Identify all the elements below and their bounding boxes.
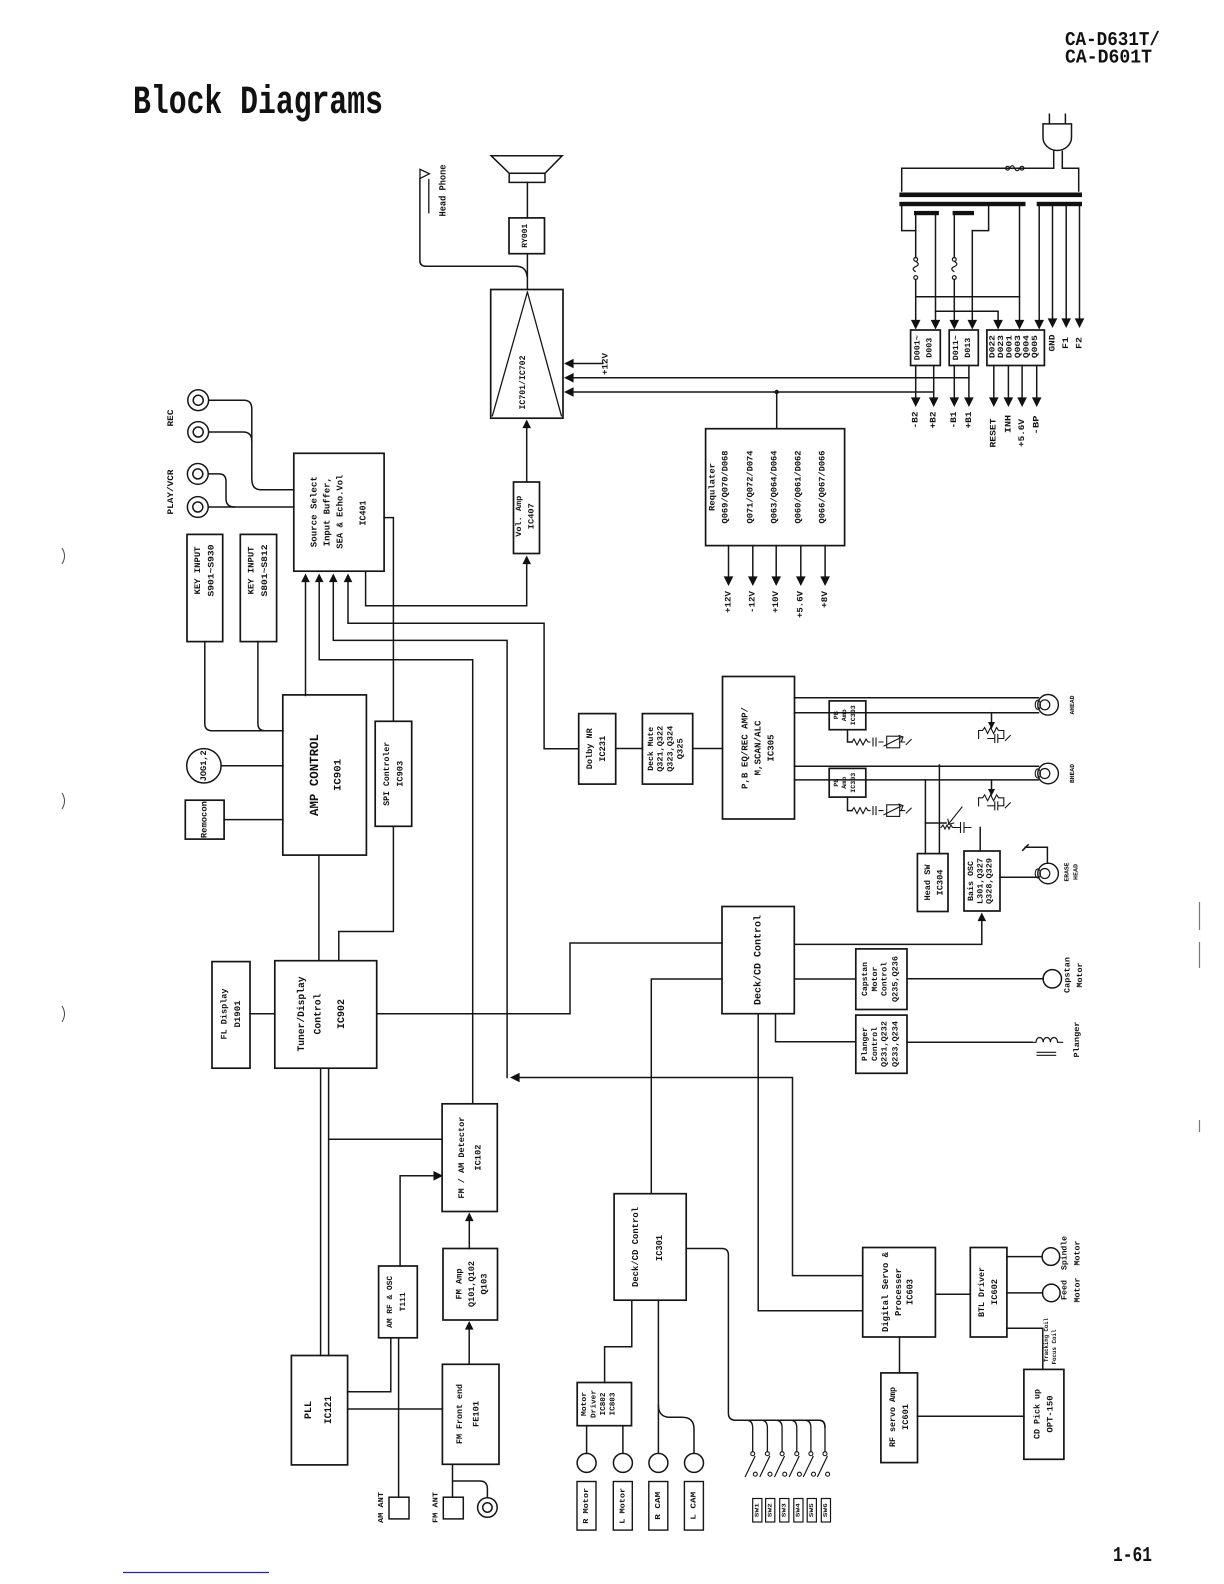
- wire planger control to coil: [907, 1041, 1032, 1043]
- wire link crossbar lower with corner: [936, 311, 999, 326]
- svg-text:Motor: Motor: [1073, 1277, 1082, 1302]
- speaker LS: [491, 156, 562, 183]
- wire audio line deck to IC401 junction: [514, 1078, 863, 1276]
- head A symbol: [1038, 695, 1059, 716]
- svg-text:Deck/CD Control: Deck/CD Control: [752, 915, 764, 1005]
- dolby NR box IC231: [579, 714, 616, 785]
- wire -B1 feed with fuse: [953, 215, 955, 326]
- svg-text:Block Diagrams: Block Diagrams: [133, 81, 383, 126]
- load network B: [991, 780, 993, 790]
- svg-text:RESET: RESET: [989, 419, 999, 448]
- svg-text:Deck Mute: Deck Mute: [647, 727, 656, 771]
- svg-text:IC602: IC602: [990, 1279, 1000, 1305]
- wire motor driver to R motor: [586, 1426, 588, 1454]
- svg-text:Tuner/Display: Tuner/Display: [296, 977, 308, 1052]
- svg-text:Motor: Motor: [1076, 962, 1085, 987]
- bias trimmer chain: [925, 822, 946, 824]
- svg-text:PLAY/VCR: PLAY/VCR: [166, 469, 176, 515]
- wire RESET out: [993, 366, 995, 400]
- svg-text:+5.6V: +5.6V: [796, 590, 806, 618]
- arrow into FM amp bottom: [465, 1321, 474, 1330]
- svg-text:M,SCAN/ALC: M,SCAN/ALC: [754, 720, 764, 776]
- wire key2 to amp control: [258, 642, 265, 731]
- label box SW3: [780, 1499, 789, 1523]
- wire BTL to pickup coils: [1007, 1328, 1043, 1369]
- wire FM amp to detector: [468, 1219, 470, 1249]
- svg-text:-BP: -BP: [1032, 416, 1042, 435]
- svg-text:AMP CONTROL: AMP CONTROL: [308, 734, 322, 816]
- wire A head line 1: [795, 697, 1039, 699]
- svg-text:Q233,Q234: Q233,Q234: [891, 1021, 900, 1067]
- svg-text:Head Phone: Head Phone: [438, 164, 449, 216]
- wire IC301 to motor driver: [605, 1300, 632, 1382]
- vol amp box IC407: [514, 482, 540, 554]
- svg-text:SEA & Echo.Vol: SEA & Echo.Vol: [336, 474, 346, 549]
- arrow regulator -12V: [748, 576, 758, 586]
- motor driver box: [577, 1383, 631, 1426]
- svg-text:IC803: IC803: [608, 1392, 617, 1415]
- svg-text:SW5: SW5: [808, 1502, 815, 1517]
- FM ANT square: [443, 1497, 463, 1519]
- svg-text:AHEAD: AHEAD: [1069, 695, 1076, 714]
- arrow into D011 box right: [968, 320, 978, 330]
- svg-text:CD Pick up: CD Pick up: [1032, 1389, 1042, 1439]
- arrow -B1: [950, 397, 960, 407]
- load network A: [991, 713, 993, 723]
- wire IC401 in1 from amp control: [305, 580, 307, 696]
- svg-text:Requlater: Requlater: [707, 463, 717, 511]
- PB amp B box IC303: [829, 768, 866, 797]
- arrow +B2: [929, 397, 939, 407]
- wire SPI to tuner: [339, 826, 394, 960]
- svg-text:PLL: PLL: [304, 1401, 315, 1419]
- arrow regulator +12V: [724, 576, 734, 586]
- wire IC401 right to SPI: [384, 518, 393, 722]
- svg-text:Q328,Q329: Q328,Q329: [986, 858, 995, 904]
- source select box IC401: [294, 453, 384, 571]
- wire -B2 feed with fuse: [915, 215, 917, 326]
- wire deck/cd to digital servo a: [758, 1014, 863, 1311]
- wire head SW riser 2: [938, 765, 940, 854]
- svg-text:FM / AM Detector: FM / AM Detector: [457, 1117, 467, 1199]
- svg-text:IC802: IC802: [599, 1392, 608, 1415]
- svg-text:IC903: IC903: [396, 761, 406, 787]
- svg-text:RF servo Amp: RF servo Amp: [888, 1387, 898, 1447]
- arrow into D001 box right: [931, 320, 941, 330]
- svg-text:P,B EQ/REC AMP/: P,B EQ/REC AMP/: [741, 707, 751, 789]
- wire deck/cd to bias OSC: [794, 919, 982, 944]
- svg-text:L CAM: L CAM: [690, 1491, 699, 1520]
- wire PLAY jack3 joins: [208, 474, 234, 507]
- svg-text:IC701/IC702: IC701/IC702: [518, 356, 528, 410]
- svg-text:+12V: +12V: [600, 352, 610, 375]
- arrow +5.6V tx: [1017, 397, 1027, 407]
- arrow INH: [1004, 397, 1014, 407]
- svg-text:SPI Controler: SPI Controler: [382, 742, 392, 806]
- svg-text:Feed: Feed: [1061, 1280, 1070, 1300]
- wire bias to erase head: [1000, 876, 1038, 878]
- label box SW6: [821, 1499, 830, 1523]
- svg-text:OPT-150: OPT-150: [1045, 1396, 1055, 1433]
- svg-text:IC231: IC231: [598, 736, 608, 762]
- headphone jack symbol: [420, 169, 429, 213]
- deck mute box: [642, 714, 692, 785]
- switch SW1 contacts: [751, 1452, 755, 1456]
- wire right secondary left end down: [1038, 206, 1040, 326]
- label box R Motor: [577, 1482, 596, 1531]
- arrow IC401 in3: [329, 574, 338, 583]
- label box L CAM: [684, 1482, 703, 1531]
- svg-text:BTL Driver: BTL Driver: [977, 1267, 987, 1317]
- arrow RESET: [989, 397, 999, 407]
- svg-text:-12V: -12V: [748, 590, 758, 613]
- svg-text:T111: T111: [399, 1292, 408, 1311]
- wire IC401 bottom to vol amp: [366, 562, 527, 606]
- svg-text:Q103: Q103: [479, 1274, 489, 1295]
- arrow IC401 in2: [315, 574, 324, 583]
- wire PLAY jack4 to IC401: [208, 506, 293, 508]
- arrow +12V into amp: [564, 359, 574, 369]
- wire -B1 out: [953, 366, 955, 400]
- svg-text:D001~: D001~: [914, 335, 923, 360]
- capstan motor circle: [1043, 970, 1061, 988]
- wire F2: [1079, 206, 1081, 324]
- svg-text:KEY INPUT: KEY INPUT: [247, 547, 257, 595]
- svg-text:SW2: SW2: [767, 1502, 774, 1517]
- AM RF OSC box T111: [379, 1266, 418, 1338]
- primary loop wire: [902, 168, 1079, 191]
- wire digital servo to RF amp: [899, 1337, 901, 1373]
- primary winding bar: [899, 193, 1082, 198]
- svg-text:FM Front end: FM Front end: [455, 1384, 465, 1444]
- wire amp control to tuner: [318, 855, 320, 961]
- arrow +B2 rail into amp: [564, 387, 574, 397]
- svg-text:INH: INH: [1003, 415, 1013, 433]
- svg-text:Q325: Q325: [676, 738, 685, 759]
- svg-text:GND: GND: [1047, 335, 1057, 352]
- wire capstan control to motor: [907, 978, 1043, 980]
- wire digital servo to BTL: [935, 1293, 970, 1295]
- wire link crossbar upper: [916, 296, 1020, 298]
- sub winding bar 1: [914, 211, 939, 215]
- FM amp box: [443, 1249, 498, 1321]
- wire head SW riser 1: [924, 780, 926, 854]
- arrow IC401 in1: [301, 574, 310, 583]
- feed motor circle: [1043, 1284, 1061, 1302]
- svg-text:Digital Servo &: Digital Servo &: [881, 1251, 891, 1332]
- svg-text:FM Amp: FM Amp: [454, 1269, 464, 1300]
- svg-text:Bais OSC: Bais OSC: [967, 861, 976, 901]
- arrow into D022 box col1: [993, 320, 1003, 330]
- svg-text:Dolby NR: Dolby NR: [585, 727, 595, 769]
- svg-text:BHEAD: BHEAD: [1069, 764, 1076, 783]
- svg-text:SW3: SW3: [781, 1502, 788, 1517]
- wire tap step right: [972, 206, 988, 230]
- svg-text:IC901: IC901: [333, 759, 344, 791]
- svg-text:Q060/Q061/D062: Q060/Q061/D062: [793, 451, 803, 524]
- svg-text:SW4: SW4: [795, 1502, 802, 1517]
- svg-text:-B2: -B2: [911, 412, 921, 429]
- switch SW2 contacts: [765, 1452, 769, 1456]
- arrow -BP: [1032, 397, 1042, 407]
- wire secondary tap to D022 box: [1019, 206, 1021, 326]
- wire +12V into amp: [567, 363, 603, 365]
- svg-text:IC407: IC407: [528, 503, 537, 529]
- head SW box IC304: [917, 854, 948, 912]
- svg-text:+B1: +B1: [964, 412, 974, 429]
- svg-text:RY001: RY001: [521, 224, 530, 248]
- wire +B2 rail to amp: [567, 391, 934, 393]
- AM ANT square: [389, 1497, 409, 1519]
- arrow into D011 box left: [950, 320, 960, 330]
- svg-text:+10V: +10V: [771, 590, 781, 613]
- sub winding bar 2: [953, 211, 974, 215]
- wire FE101 to FM amp: [468, 1328, 470, 1364]
- SPI controller box IC903: [375, 721, 412, 826]
- jack REC 1: [188, 390, 209, 411]
- arrow F2: [1075, 318, 1085, 328]
- label box SW4: [794, 1499, 803, 1523]
- svg-text:Focus Coil: Focus Coil: [1051, 1329, 1058, 1364]
- svg-text:IC601: IC601: [901, 1404, 911, 1430]
- power amp IC701/IC702 box: [491, 290, 563, 419]
- rectifier box D022-Q005: [987, 330, 1045, 366]
- svg-text:S801~S812: S801~S812: [260, 545, 270, 597]
- arrow into D001 box left: [911, 320, 921, 330]
- svg-text:D003: D003: [925, 337, 934, 357]
- wire REC jack2 joins: [209, 432, 252, 441]
- spindle motor circle: [1042, 1248, 1060, 1266]
- svg-text:IC603: IC603: [905, 1279, 915, 1305]
- tuner display box IC902: [275, 961, 377, 1068]
- svg-text:HEAD: HEAD: [1073, 864, 1080, 880]
- planger coil symbol: [1032, 1037, 1063, 1042]
- wire key1 to amp control: [205, 642, 283, 731]
- wire headphone branch: [420, 179, 527, 276]
- svg-text:S901~S930: S901~S930: [207, 545, 217, 597]
- svg-text:FL Display: FL Display: [219, 989, 229, 1040]
- arrow into power amp bottom: [522, 420, 531, 429]
- deck/cd control box IC301: [614, 1194, 686, 1301]
- key input box S801~S812: [240, 534, 276, 641]
- arrow +B1: [964, 397, 974, 407]
- amp control box IC901: [283, 695, 367, 855]
- blue artifact line bottom left: [123, 1572, 269, 1574]
- erase head symbol: [1038, 863, 1059, 884]
- remocon box: [185, 800, 224, 839]
- wire deck mute to PB EQ: [693, 748, 723, 750]
- wire -B2 out: [915, 366, 917, 400]
- PB amp A box IC303: [829, 701, 866, 730]
- svg-text:Remocon: Remocon: [200, 801, 210, 838]
- svg-text:Input Buffer,: Input Buffer,: [323, 477, 333, 546]
- wire RY001 to power amp: [526, 254, 528, 290]
- svg-text:-B1: -B1: [949, 412, 959, 429]
- svg-text:IC121: IC121: [324, 1396, 335, 1424]
- wire B head line 1: [795, 765, 1039, 767]
- label box SW5: [807, 1499, 816, 1523]
- RC network B: [848, 797, 853, 811]
- arrow -B2: [911, 397, 921, 407]
- svg-text:PB: PB: [833, 711, 840, 719]
- wire regulator out +10V: [775, 546, 777, 578]
- jack REC 2: [188, 422, 209, 443]
- svg-text:Control: Control: [881, 962, 890, 996]
- svg-text:IC303: IC303: [850, 773, 857, 793]
- PLL box IC121: [291, 1356, 347, 1465]
- wire PLL to FE101: [348, 1408, 443, 1410]
- wire IC401 in2 from FM/AM det: [319, 580, 473, 1104]
- svg-text:Spindle: Spindle: [1061, 1236, 1070, 1270]
- svg-text:PB: PB: [833, 779, 840, 787]
- FM/AM detector box IC102: [442, 1104, 497, 1212]
- svg-text:Q071/Q072/D074: Q071/Q072/D074: [745, 451, 755, 524]
- wire tuner to deck/cd: [377, 943, 722, 1014]
- head B symbol: [1038, 763, 1059, 784]
- svg-text:Amp: Amp: [841, 777, 848, 789]
- arrow into detector left: [434, 1171, 444, 1181]
- wire regulator riser: [776, 392, 778, 429]
- wire IC401 in3 from deck: [333, 580, 507, 1078]
- arrow +B1 rail into amp: [564, 373, 574, 383]
- arrow into D022 box col3: [1034, 320, 1044, 330]
- svg-text:CA-D601T: CA-D601T: [1065, 47, 1152, 69]
- arrow regulator +10V: [771, 576, 781, 586]
- wire tuner to PLL 1: [320, 1068, 322, 1355]
- fuse F001 on primary: [1006, 166, 1024, 171]
- svg-text:ERASE: ERASE: [1064, 862, 1071, 881]
- svg-text:F2: F2: [1075, 337, 1085, 349]
- svg-text:SW6: SW6: [822, 1502, 829, 1517]
- wire IC301 to switch bus: [686, 1249, 825, 1428]
- wire BTL to feed motor: [1007, 1292, 1043, 1294]
- svg-text:IC304: IC304: [935, 870, 945, 896]
- svg-text:F1: F1: [1061, 337, 1071, 349]
- jack PLAY/VCR 2: [187, 497, 208, 518]
- wire tuner to PLL 2 with det branch: [329, 1068, 443, 1355]
- svg-text:Q069/Q070/D068: Q069/Q070/D068: [720, 451, 730, 524]
- CD pickup box OPT-150: [1024, 1369, 1064, 1459]
- switch SW6 contacts: [823, 1452, 827, 1456]
- svg-text:REC: REC: [166, 410, 176, 427]
- arrow audio into riser: [510, 1073, 520, 1083]
- AC plug: [1043, 114, 1072, 169]
- label box R CAM: [649, 1482, 668, 1531]
- wire IC401 in4 from dolby: [348, 580, 579, 749]
- svg-text:Q323,Q324: Q323,Q324: [667, 726, 676, 772]
- arrow regulator +8V: [820, 576, 830, 586]
- BTL driver box IC602: [970, 1248, 1007, 1338]
- wire +B1 out: [968, 366, 970, 400]
- svg-text:Control: Control: [871, 1027, 880, 1061]
- planger control box: [856, 1015, 907, 1073]
- wire regulator out +8V: [824, 546, 826, 578]
- wire +5.6V out: [1021, 366, 1023, 400]
- wire deck/cd to planger control: [776, 1014, 856, 1042]
- relay RY001: [509, 218, 545, 254]
- knob JOG1,2: [187, 749, 221, 783]
- rectifier box D001~D003: [911, 330, 941, 366]
- model numbers CA-D631T/CA-D601T: [1065, 29, 1160, 69]
- svg-text:+12V: +12V: [723, 590, 733, 613]
- svg-text:IC303: IC303: [850, 705, 857, 725]
- svg-text:Control: Control: [312, 994, 324, 1035]
- svg-text:Motor: Motor: [871, 966, 880, 991]
- wire +B1 feed: [971, 231, 973, 326]
- wire IC301 to L CAM: [658, 1405, 694, 1453]
- arrow into vol amp: [522, 556, 531, 565]
- wire AM RF to detector: [400, 1176, 436, 1266]
- power amp triangle: [492, 292, 561, 416]
- external antenna jack: [478, 1498, 498, 1518]
- svg-text:Q231,Q232: Q231,Q232: [881, 1021, 890, 1067]
- wire +B2 feed: [935, 215, 937, 326]
- svg-text:IC305: IC305: [767, 735, 777, 762]
- svg-text:IC401: IC401: [359, 500, 369, 526]
- capstan motor control box: [856, 949, 907, 1010]
- wire BTL to spindle motor: [1007, 1256, 1042, 1258]
- svg-text:Capstan: Capstan: [861, 962, 870, 996]
- svg-text:IC301: IC301: [655, 1234, 665, 1261]
- wire FE101 to FM ANT: [453, 1464, 488, 1497]
- svg-text:JOG1,2: JOG1,2: [199, 750, 209, 781]
- svg-text:Processer: Processer: [894, 1268, 904, 1316]
- junction dot regulator tap: [775, 390, 779, 394]
- switch SW3 contacts: [780, 1452, 784, 1456]
- R motor circle: [577, 1453, 596, 1472]
- wire dolby to deck mute: [616, 748, 643, 750]
- wire regulator out +12V: [728, 546, 730, 578]
- switch bus drops: [747, 1420, 825, 1451]
- svg-text:Planger: Planger: [861, 1027, 870, 1061]
- scan artifact fold line right margin: [1199, 902, 1201, 1132]
- svg-text:L Motor: L Motor: [619, 1488, 627, 1524]
- wire JOG to amp control: [221, 765, 283, 767]
- svg-text:AM RF & OSC: AM RF & OSC: [386, 1276, 395, 1328]
- arrow regulator +5.6V: [796, 576, 806, 586]
- wire IC301 to R CAM: [657, 1300, 659, 1453]
- deck/cd control box upper: [722, 907, 794, 1014]
- rectifier box D011~D013: [949, 330, 978, 366]
- arrow GND: [1048, 318, 1058, 328]
- bias OSC box: [964, 851, 1000, 911]
- FL display box D1901: [212, 962, 250, 1069]
- svg-text:Motor: Motor: [581, 1392, 589, 1416]
- svg-text:R CAM: R CAM: [654, 1491, 663, 1520]
- wire INH out: [1007, 366, 1009, 400]
- svg-text:Capstan: Capstan: [1063, 957, 1072, 993]
- wire AM RF to AM ANT: [398, 1338, 400, 1497]
- svg-text:KEY INPUT: KEY INPUT: [193, 547, 203, 595]
- svg-text:IC902: IC902: [337, 999, 348, 1029]
- wire F1: [1065, 206, 1067, 324]
- svg-text:Q101,Q102: Q101,Q102: [467, 1261, 477, 1307]
- wire +B1 rail to amp: [567, 377, 969, 379]
- regulator box: [706, 429, 845, 546]
- label box L Motor: [613, 1482, 632, 1531]
- svg-text:D013: D013: [964, 337, 973, 357]
- arrow into D022 box col2: [1015, 320, 1025, 330]
- wire +B2 out: [933, 366, 935, 400]
- svg-text:Tracking Coil: Tracking Coil: [1043, 1318, 1050, 1362]
- svg-text:D011~: D011~: [952, 335, 961, 360]
- wire -BP out: [1036, 366, 1038, 400]
- FM front end box FE101: [442, 1364, 499, 1464]
- wire secondary left end bracket: [902, 206, 916, 230]
- svg-text:IC102: IC102: [474, 1145, 484, 1171]
- arrow into bias OSC bottom: [978, 913, 987, 922]
- svg-text:Q066/Q067/D066: Q066/Q067/D066: [817, 451, 827, 524]
